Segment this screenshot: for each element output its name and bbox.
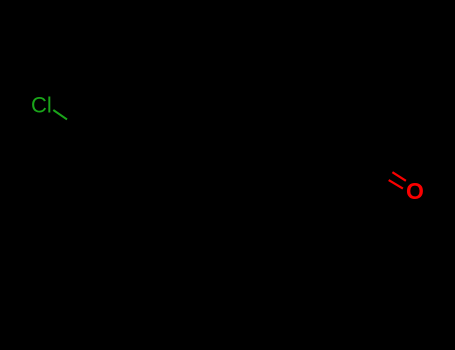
svg-text:Cl: Cl xyxy=(31,92,52,117)
svg-text:O: O xyxy=(406,178,424,204)
